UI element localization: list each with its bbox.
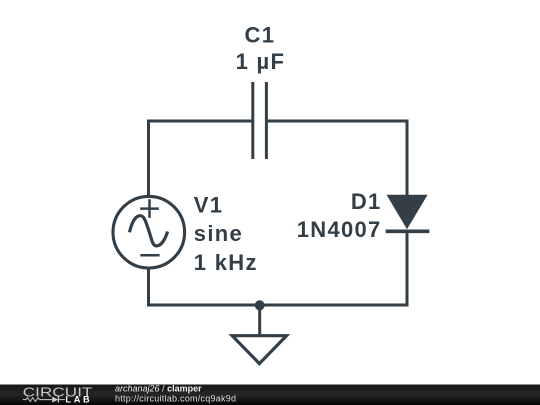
label 1 µF	[236, 49, 286, 74]
svg-text:1 kHz: 1 kHz	[194, 250, 258, 275]
wire right upper (top rail to D1 anode)	[406, 120, 409, 197]
wire right lower (D1 cathode to bottom rail)	[406, 231, 409, 305]
label D1	[351, 189, 382, 214]
diode D1	[386, 195, 430, 232]
voltage source V1	[113, 196, 185, 268]
wire left upper (top rail to V1 top)	[147, 120, 150, 197]
svg-text:sine: sine	[194, 221, 243, 246]
capacitor C1	[253, 82, 267, 159]
wire bottom rail	[147, 304, 409, 307]
node junction on bottom rail	[255, 300, 265, 310]
svg-text:D1: D1	[351, 189, 382, 214]
footer text	[115, 383, 236, 403]
footer bar	[0, 385, 540, 405]
svg-text:V1: V1	[194, 192, 224, 217]
CircuitLab logo	[23, 386, 93, 405]
label 1N4007	[297, 217, 382, 242]
svg-text:1N4007: 1N4007	[297, 217, 382, 242]
wire left lower (V1 bottom to bottom rail)	[147, 269, 150, 305]
svg-text:http://circuitlab.com/cq9ak9d: http://circuitlab.com/cq9ak9d	[115, 393, 236, 403]
ground	[232, 305, 286, 364]
wire top-left from left rail to C1 left plate	[147, 120, 253, 123]
svg-text:archanaj26 / clamper: archanaj26 / clamper	[115, 383, 202, 393]
svg-text:1 µF: 1 µF	[236, 49, 286, 74]
svg-text:C1: C1	[245, 22, 276, 47]
label C1	[245, 22, 276, 47]
svg-text:LAB: LAB	[65, 395, 92, 405]
wire top-right from C1 right plate to right rail	[266, 120, 408, 123]
label V1 sine 1 kHz	[194, 192, 258, 275]
